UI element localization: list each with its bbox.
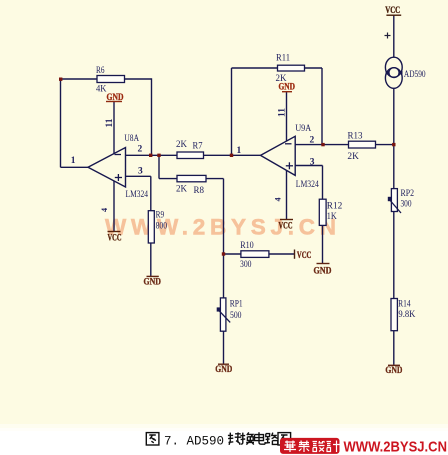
svg-text:GND: GND	[107, 93, 124, 103]
svg-text:2K: 2K	[347, 152, 359, 162]
svg-text:R14: R14	[398, 299, 411, 309]
svg-text:R13: R13	[348, 132, 363, 142]
svg-text:3: 3	[310, 157, 315, 167]
svg-text:LM324: LM324	[126, 190, 149, 200]
svg-text:2: 2	[310, 136, 315, 146]
svg-text:1: 1	[237, 146, 242, 156]
svg-text:WWW.2BYSJ.CN: WWW.2BYSJ.CN	[344, 439, 448, 455]
svg-text:VCC: VCC	[108, 233, 122, 243]
svg-text:4: 4	[274, 198, 283, 202]
svg-text:11: 11	[278, 108, 288, 117]
svg-text:300: 300	[240, 260, 252, 270]
svg-text:R8: R8	[194, 186, 205, 196]
svg-text:WWW.2BYSJ.CN: WWW.2BYSJ.CN	[105, 215, 336, 240]
svg-text:2K: 2K	[176, 185, 187, 195]
svg-text:GND: GND	[215, 365, 232, 375]
svg-text:3: 3	[138, 167, 143, 177]
svg-text:2: 2	[138, 145, 143, 155]
svg-text:AD590: AD590	[404, 70, 426, 80]
svg-text:LM324: LM324	[296, 180, 319, 190]
svg-text:RP2: RP2	[401, 189, 415, 199]
svg-text:VCC: VCC	[385, 6, 400, 16]
svg-text:R7: R7	[193, 142, 203, 152]
svg-text:R11: R11	[276, 54, 290, 64]
svg-text:U9A: U9A	[295, 124, 311, 134]
svg-text:R9: R9	[156, 211, 165, 221]
svg-text:GND: GND	[314, 267, 332, 277]
svg-text:R10: R10	[240, 241, 254, 251]
svg-text:VCC: VCC	[279, 222, 293, 232]
svg-text:4: 4	[100, 208, 109, 212]
svg-text:VCC: VCC	[297, 251, 312, 261]
svg-text:RP1: RP1	[230, 300, 243, 310]
svg-text:R6: R6	[96, 66, 105, 76]
svg-text:GND: GND	[279, 83, 296, 93]
svg-text:1: 1	[71, 156, 76, 166]
svg-text:2K: 2K	[276, 74, 287, 84]
svg-text:9.8K: 9.8K	[398, 310, 415, 320]
svg-text:R12: R12	[327, 202, 343, 212]
svg-text:GND: GND	[144, 278, 162, 288]
svg-text:500: 500	[230, 311, 242, 321]
svg-text:800: 800	[156, 221, 168, 231]
svg-text:4K: 4K	[96, 85, 107, 95]
svg-text:1K: 1K	[327, 212, 337, 222]
svg-text:7. AD590: 7. AD590	[164, 434, 224, 448]
svg-text:GND: GND	[385, 366, 402, 376]
svg-text:2K: 2K	[176, 140, 187, 150]
svg-text:11: 11	[105, 118, 115, 127]
svg-text:U8A: U8A	[124, 134, 139, 144]
svg-text:300: 300	[401, 199, 412, 209]
